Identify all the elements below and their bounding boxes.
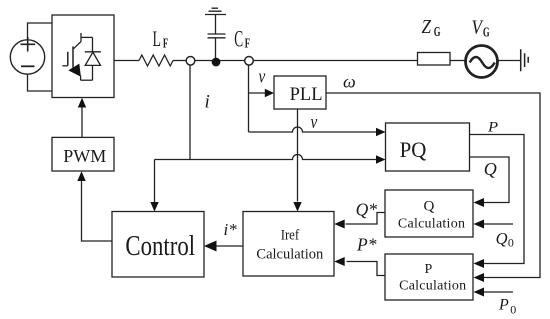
svg-text:L: L: [153, 27, 161, 51]
ac source VG sine wave: [470, 57, 495, 68]
svg-text:Z: Z: [422, 16, 432, 39]
iref calculation box U6: [243, 212, 334, 277]
ground above capacitor: [205, 8, 226, 14]
node A open circle: [186, 57, 195, 66]
capacitor CF upper lead: [215, 15, 217, 35]
svg-text:Control: Control: [125, 229, 195, 261]
arrow into Control top: [150, 202, 158, 212]
transistor Q1 collector diagonal: [73, 42, 81, 49]
transistor Q1 emitter tail: [80, 76, 82, 81]
wire Control to PWM: [82, 181, 113, 241]
svg-text:C: C: [234, 27, 243, 53]
svg-text:0: 0: [508, 236, 514, 250]
dc source minus sign: [21, 65, 35, 67]
arrow into PWM bottom: [77, 171, 85, 181]
svg-text:ω: ω: [343, 72, 356, 92]
transistor Q1 gate bar: [67, 52, 69, 66]
diode D1 triangle: [85, 52, 100, 65]
arrow omega into P Calculation: [474, 273, 485, 282]
wire dc+ to inverter: [28, 23, 53, 40]
svg-text:Q: Q: [424, 199, 435, 215]
wire branch to Control top: [154, 160, 156, 203]
transistor Q1 gate lead: [62, 65, 67, 67]
svg-text:Q*: Q*: [356, 200, 378, 220]
svg-text:P*: P*: [356, 234, 377, 254]
arrow into inverter bottom: [78, 98, 86, 108]
wire bottom link: [81, 79, 93, 81]
svg-text:G: G: [483, 24, 490, 40]
pll box U2: [274, 76, 326, 109]
transistor Q1 emitter arrow: [68, 64, 81, 77]
wire v horizontal with hop to PQ: [249, 127, 377, 132]
wire to node A: [173, 60, 186, 62]
svg-text:G: G: [434, 24, 441, 40]
inverter box U1: [52, 15, 114, 98]
transistor Q1 top link to diode: [81, 36, 93, 38]
svg-text:F: F: [163, 36, 168, 52]
pq box U3: [386, 123, 470, 171]
diode D1 anode lead: [92, 65, 94, 80]
svg-text:i*: i*: [224, 220, 238, 239]
svg-text:PLL: PLL: [290, 85, 323, 105]
wire v from PLL bottom to Iref: [297, 109, 299, 202]
wire istar to Control: [217, 245, 244, 247]
arrow P into P Calculation: [474, 259, 485, 268]
pwm box U8: [52, 137, 114, 171]
wire v sense vertical from node B: [248, 65, 250, 132]
wire v to PLL: [249, 92, 266, 94]
svg-text:P: P: [425, 262, 433, 277]
arrow Q0 into Q Calculation: [474, 220, 485, 229]
svg-text:Calculation: Calculation: [399, 279, 466, 294]
p calculation box U5: [385, 254, 473, 300]
arrow Q into Q Calculation: [474, 198, 485, 207]
wire Qstar to Iref: [346, 213, 386, 225]
arrow v into PQ: [376, 128, 386, 136]
svg-text:v: v: [259, 66, 266, 87]
wire P0 input: [484, 291, 513, 293]
svg-text:P: P: [487, 119, 499, 135]
transistor Q1 channel bar: [72, 46, 74, 67]
label Q0: [496, 229, 514, 250]
arrow into Iref top: [293, 202, 301, 212]
wire Q output feedback: [470, 157, 510, 203]
dc source V1 circle: [10, 40, 44, 74]
arrow P0 into P Calculation: [474, 288, 485, 297]
q calculation box U4: [385, 190, 473, 237]
wire dc- to inverter: [28, 74, 53, 91]
diode D1 cathode bar: [85, 51, 101, 53]
wire i sense vertical from node A: [189, 65, 191, 159]
wire inverter output: [114, 60, 139, 62]
svg-text:Iref: Iref: [281, 228, 300, 244]
svg-text:PQ: PQ: [400, 137, 427, 162]
wire PWM to inverter: [81, 107, 83, 138]
ac source VG circle: [466, 46, 498, 78]
svg-text:PWM: PWM: [63, 146, 106, 166]
wire ZG to VG: [450, 60, 466, 62]
arrow v into PLL: [265, 89, 274, 97]
impedance ZG box: [418, 53, 451, 66]
label ZG: [422, 16, 441, 40]
svg-text:Calculation: Calculation: [398, 217, 465, 232]
svg-text:F: F: [245, 36, 250, 52]
wire node A to node B: [195, 60, 244, 62]
arrow i into PQ: [376, 155, 386, 163]
junction dot capacitor tap: [212, 58, 221, 67]
arrow Pstar into Iref: [334, 257, 345, 266]
capacitor CF plates: [208, 34, 226, 38]
ground grid right: [521, 49, 529, 71]
wire omega from PLL right: [326, 93, 540, 278]
label VG: [472, 16, 490, 40]
label P0: [498, 297, 516, 317]
label CF: [234, 27, 250, 53]
wire P output feedback: [470, 135, 525, 264]
arrow istar into Control: [204, 241, 217, 252]
transistor Q1 collector stub: [80, 33, 82, 42]
diode D1 cathode lead: [92, 37, 94, 51]
svg-text:0: 0: [510, 302, 516, 316]
svg-text:P: P: [498, 297, 509, 314]
node B open circle: [245, 57, 254, 66]
wire VG to ground: [497, 60, 520, 62]
svg-text:Q: Q: [484, 159, 497, 179]
arrow Qstar into Iref: [334, 220, 345, 229]
svg-text:i: i: [205, 92, 210, 113]
dc source plus sign: [21, 37, 36, 52]
wire Q0 input: [484, 223, 513, 225]
inductor LF zigzag: [139, 55, 173, 66]
capacitor CF lower lead: [215, 38, 217, 58]
svg-text:v: v: [311, 111, 318, 132]
control box U7: [112, 212, 204, 278]
wire Pstar to Iref: [347, 262, 386, 276]
wire node B to ZG: [254, 60, 418, 62]
svg-text:Calculation: Calculation: [256, 246, 324, 262]
wire i horizontal with hop to PQ: [155, 155, 377, 160]
svg-text:Q: Q: [496, 229, 508, 248]
label LF: [153, 27, 169, 52]
